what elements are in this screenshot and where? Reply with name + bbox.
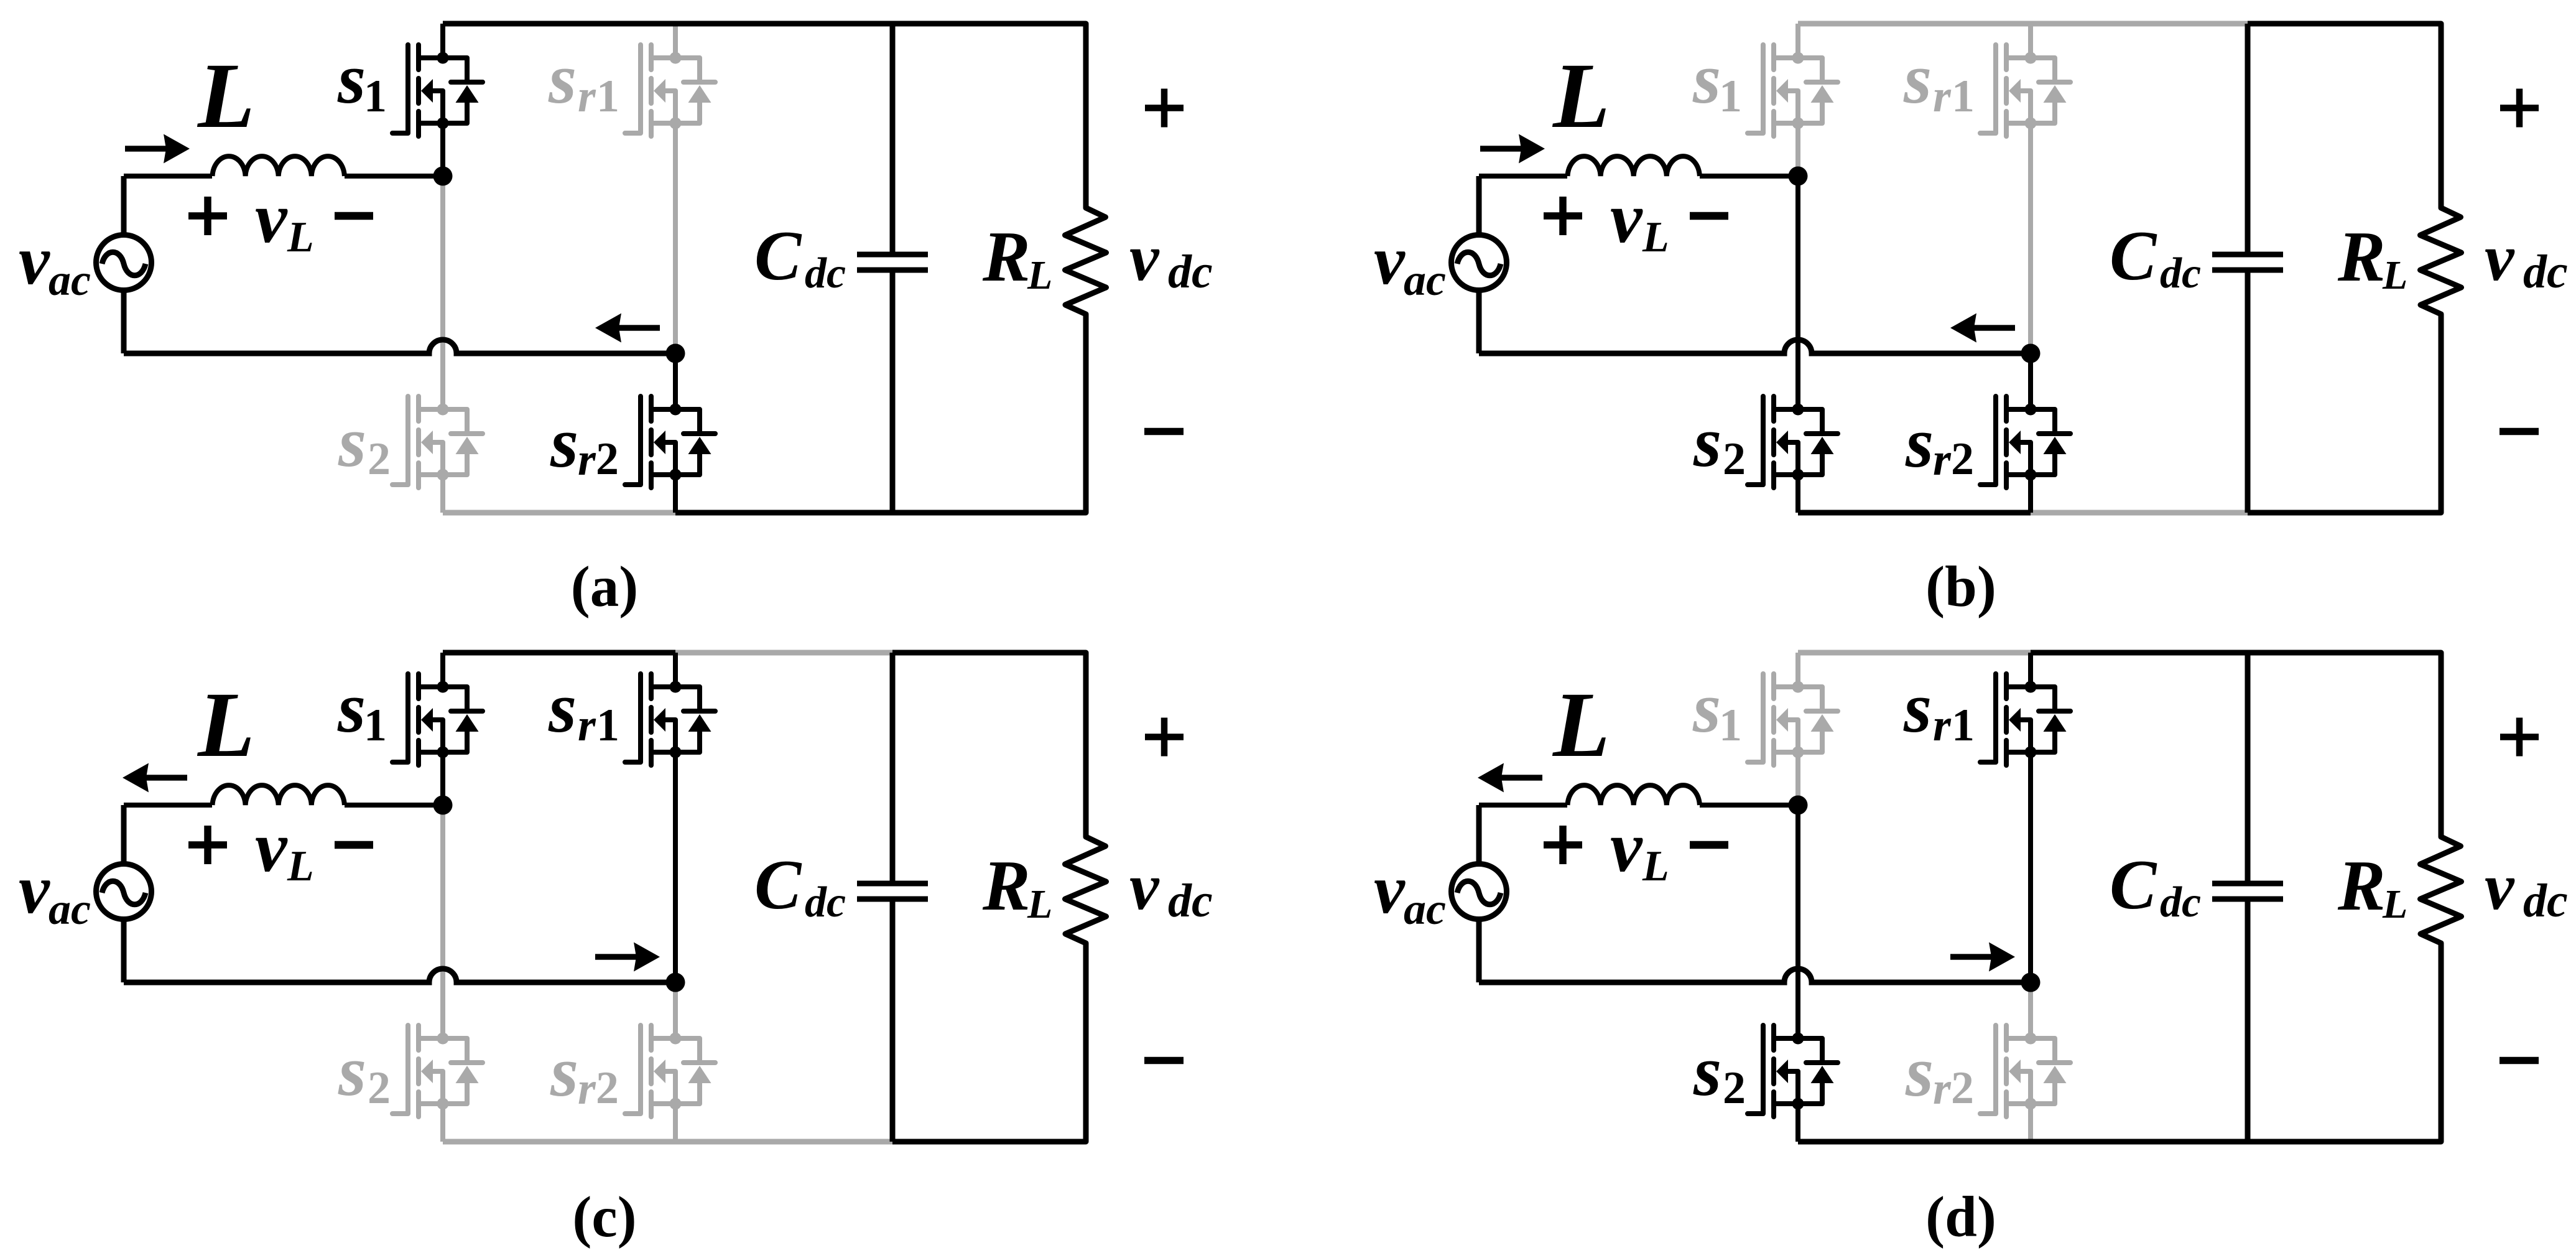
svg-text:L: L [2382,253,2407,298]
svg-text:2: 2 [1723,1063,1746,1114]
svg-text:s: s [1693,1032,1721,1111]
svg-text:r: r [578,434,596,485]
svg-text:ac: ac [49,255,91,305]
svg-text:C: C [754,217,802,295]
svg-text:(a): (a) [571,555,638,619]
svg-text:dc: dc [1168,246,1213,298]
svg-text:s: s [1692,668,1721,748]
svg-text:2: 2 [1951,434,1974,485]
svg-text:v: v [2485,850,2515,924]
svg-text:ac: ac [49,884,91,934]
svg-text:1: 1 [364,71,387,122]
svg-text:1: 1 [596,71,619,122]
svg-text:s: s [1692,39,1721,119]
svg-text:s: s [1905,403,1934,483]
svg-text:2: 2 [368,1063,391,1114]
svg-text:r: r [1933,1063,1952,1114]
svg-text:R: R [982,217,1031,296]
svg-text:s: s [1903,39,1932,119]
svg-text:1: 1 [364,700,387,751]
svg-text:v: v [255,808,288,887]
svg-text:s: s [1903,668,1932,748]
svg-text:v: v [1129,221,1160,295]
svg-text:dc: dc [2160,878,2201,926]
svg-text:s: s [338,403,366,482]
svg-text:dc: dc [2523,875,2568,927]
svg-text:r: r [578,71,596,122]
svg-text:L: L [1027,882,1052,927]
svg-text:s: s [550,1032,578,1112]
svg-text:L: L [1027,253,1052,298]
svg-text:R: R [982,846,1031,925]
svg-text:L: L [287,842,314,890]
svg-text:v: v [1129,850,1160,924]
svg-text:v: v [1610,179,1643,258]
svg-text:L: L [1552,44,1610,147]
svg-text:L: L [197,673,255,776]
svg-text:r: r [578,700,596,751]
svg-text:r: r [1933,700,1952,751]
svg-text:s: s [338,1032,366,1111]
svg-text:1: 1 [1952,700,1975,751]
svg-text:s: s [548,39,577,119]
svg-text:s: s [1905,1032,1934,1112]
svg-text:r: r [578,1063,596,1114]
svg-text:2: 2 [1723,434,1746,485]
svg-text:dc: dc [1168,875,1213,927]
svg-text:v: v [255,179,288,258]
svg-text:r: r [1933,71,1952,122]
svg-text:C: C [2110,846,2157,924]
svg-text:C: C [2110,217,2157,295]
svg-text:C: C [754,846,802,924]
svg-text:L: L [1552,673,1610,776]
svg-text:1: 1 [1719,700,1742,751]
svg-text:1: 1 [1952,71,1975,122]
svg-text:dc: dc [2523,246,2568,298]
svg-text:dc: dc [2160,249,2201,297]
svg-text:v: v [2485,221,2515,295]
svg-text:2: 2 [596,1063,619,1114]
svg-text:2: 2 [368,434,391,485]
svg-text:s: s [337,39,366,119]
svg-text:2: 2 [1951,1063,1974,1114]
svg-text:R: R [2337,217,2386,296]
svg-text:s: s [550,403,578,483]
svg-text:s: s [548,668,577,748]
svg-text:s: s [337,668,366,748]
svg-text:s: s [1693,403,1721,482]
svg-text:v: v [19,851,50,928]
svg-text:ac: ac [1404,255,1446,305]
svg-text:2: 2 [596,434,619,485]
svg-text:v: v [1374,222,1406,299]
svg-text:(d): (d) [1925,1185,1996,1249]
svg-text:L: L [1642,213,1669,261]
svg-text:L: L [287,213,314,261]
svg-text:L: L [197,44,255,147]
svg-text:dc: dc [805,878,846,926]
svg-text:L: L [2382,882,2407,927]
svg-text:(b): (b) [1925,555,1996,619]
svg-text:(c): (c) [572,1185,636,1249]
svg-text:1: 1 [1719,71,1742,122]
svg-text:dc: dc [805,249,846,297]
svg-text:R: R [2337,846,2386,925]
svg-text:v: v [1610,808,1643,887]
svg-text:v: v [19,222,50,299]
svg-text:1: 1 [596,700,619,751]
svg-text:ac: ac [1404,884,1446,934]
svg-text:L: L [1642,842,1669,890]
svg-text:v: v [1374,851,1406,928]
svg-text:r: r [1933,434,1952,485]
